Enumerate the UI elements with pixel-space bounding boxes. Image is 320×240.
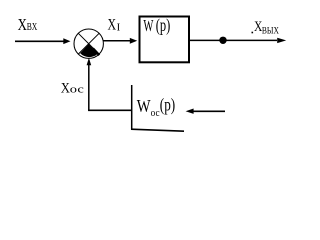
block W2 feedback bottom edge [131, 129, 184, 131]
block W2 feedback left edge [131, 85, 133, 130]
svg-text:ос: ос [70, 85, 85, 96]
summing junction U1 circle [74, 29, 103, 58]
summing junction cross diagonal NW-SE [78, 33, 99, 54]
wire feedback horizontal to summing junction column [88, 109, 132, 111]
node Xoc feedback label [61, 81, 85, 97]
node branch dot [219, 37, 226, 44]
svg-text:W: W [143, 16, 153, 35]
node Xvx input label [18, 15, 38, 34]
wire summing junction to W(p) [103, 40, 130, 42]
wire input arrowhead [63, 38, 70, 44]
node Xvyx output label [252, 19, 280, 36]
summing junction filled bottom sector [80, 44, 98, 57]
svg-text:ВХ: ВХ [27, 22, 38, 33]
svg-text:I: I [117, 22, 121, 34]
wire output arrowhead [277, 38, 286, 43]
svg-text:ВЫХ: ВЫХ [262, 26, 279, 36]
svg-text:X: X [108, 17, 117, 34]
node X1 error signal label [108, 17, 121, 34]
block W1 rectangle [140, 17, 190, 63]
summing junction cross diagonal NE-SW [78, 33, 99, 54]
svg-text:(p): (p) [156, 15, 171, 35]
block W2 label Woc(p) [137, 95, 176, 119]
wire feedback up arrowhead into summing junction [87, 58, 92, 66]
svg-text:X: X [18, 15, 27, 34]
wire feedback vertical riser [88, 65, 90, 111]
svg-text:ос: ос [151, 107, 160, 119]
wire arrowhead into W(p) [130, 38, 137, 44]
wire output line [190, 39, 278, 41]
wire input line into summing junction [15, 40, 64, 42]
summing junction sector spur along SE arm [93, 49, 99, 56]
svg-text:(p): (p) [160, 95, 176, 115]
svg-text:W: W [137, 96, 151, 116]
wire feedback arrow into Woc block [194, 110, 226, 112]
wire feedback left arrowhead [186, 109, 194, 114]
